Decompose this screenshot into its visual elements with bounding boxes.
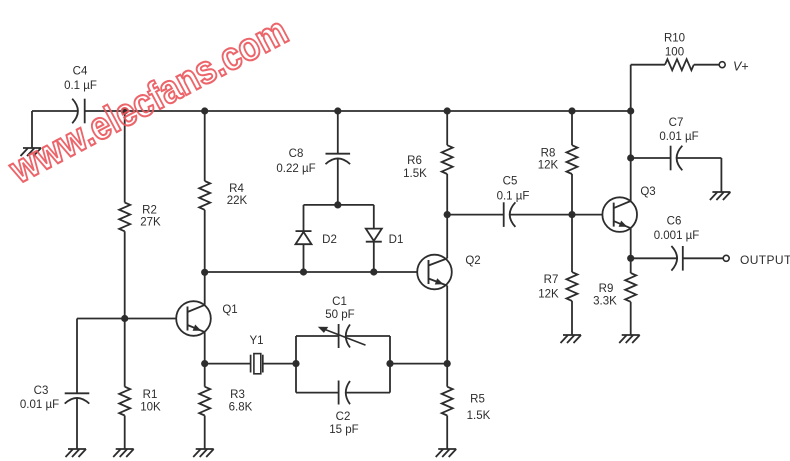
ground top-left bbox=[21, 148, 42, 156]
svg-text:0.01 µF: 0.01 µF bbox=[20, 399, 59, 411]
svg-text:D1: D1 bbox=[389, 234, 404, 246]
wire R5 top bbox=[446, 364, 448, 387]
capacitor C5 bbox=[497, 175, 530, 227]
terminal V+ bbox=[719, 59, 748, 73]
wire Q1 base row bbox=[77, 318, 176, 320]
ground R5 bbox=[436, 449, 457, 457]
svg-text:Q2: Q2 bbox=[465, 255, 480, 267]
svg-text:R7: R7 bbox=[544, 274, 559, 286]
wire top rail left segment bbox=[32, 110, 78, 112]
svg-text:0.1 µF: 0.1 µF bbox=[497, 190, 530, 202]
svg-text:0.001 µF: 0.001 µF bbox=[654, 230, 700, 242]
wire Y1 to loop bbox=[262, 363, 296, 365]
svg-text:12K: 12K bbox=[538, 160, 559, 172]
svg-text:Y1: Y1 bbox=[249, 335, 263, 347]
node C6 junction bbox=[627, 255, 634, 262]
svg-text:R9: R9 bbox=[599, 283, 614, 295]
wire C6 left bbox=[631, 257, 677, 259]
resistor R6 bbox=[403, 145, 453, 180]
node R5 top bbox=[444, 360, 451, 367]
resistor R8 bbox=[538, 145, 578, 174]
wire V+ riser bbox=[630, 65, 632, 111]
wire Q2 emitter bbox=[446, 286, 448, 364]
wire C8 bottom bbox=[337, 158, 339, 205]
wire Q3 base bbox=[572, 214, 602, 216]
ground R3 bbox=[193, 449, 214, 457]
resistor R1 bbox=[119, 387, 161, 416]
wire Q3 emitter bbox=[630, 228, 632, 258]
wire left drop bbox=[31, 111, 33, 148]
svg-text:R5: R5 bbox=[470, 393, 485, 405]
svg-text:Q3: Q3 bbox=[640, 186, 655, 198]
node Q1 collector junction bbox=[201, 269, 208, 276]
svg-text:C3: C3 bbox=[34, 385, 49, 397]
capacitor C6 bbox=[654, 215, 700, 270]
wire loop bottom-left bbox=[296, 392, 339, 394]
diode D1 bbox=[366, 205, 404, 272]
node D1 bottom bbox=[370, 268, 377, 275]
node C7 junction bbox=[627, 154, 634, 161]
wire loop top-right bbox=[346, 335, 390, 337]
svg-text:D2: D2 bbox=[322, 234, 337, 246]
ground C7 bbox=[710, 192, 731, 200]
wire loop right edge bbox=[389, 336, 391, 393]
wire R8 bottom bbox=[571, 174, 573, 215]
wire R2 top bbox=[124, 111, 126, 203]
svg-text:R4: R4 bbox=[229, 183, 244, 195]
svg-text:6.8K: 6.8K bbox=[229, 401, 253, 413]
capacitor C4 bbox=[64, 65, 97, 123]
resistor R2 bbox=[119, 203, 161, 232]
node rail-R8 bbox=[568, 107, 575, 114]
wire Q3 collector bbox=[630, 158, 632, 201]
wire R1 top bbox=[124, 319, 126, 387]
node C8 bottom bbox=[334, 201, 341, 208]
wire diode row bbox=[205, 271, 418, 273]
wire R6 top bbox=[446, 111, 448, 145]
svg-text:R3: R3 bbox=[230, 389, 245, 401]
wire C3 bottom bbox=[76, 398, 78, 449]
resistor R7 bbox=[538, 272, 577, 301]
wire R4 bottom bbox=[204, 210, 206, 272]
node D2 bottom bbox=[300, 268, 307, 275]
node C5 junction left bbox=[444, 211, 451, 218]
wire Q2 collector bbox=[446, 215, 448, 259]
svg-text:R8: R8 bbox=[541, 147, 556, 159]
diode D2 bbox=[296, 205, 337, 272]
node rail-R2 bbox=[121, 107, 128, 114]
svg-text:1.5K: 1.5K bbox=[467, 410, 491, 422]
svg-text:C7: C7 bbox=[669, 117, 684, 129]
svg-text:15 pF: 15 pF bbox=[329, 424, 358, 436]
node C5 junction right bbox=[568, 211, 575, 218]
wire R10 left bbox=[631, 64, 665, 66]
svg-text:27K: 27K bbox=[140, 217, 161, 229]
transistor Q2 bbox=[417, 255, 480, 290]
wire R2 bottom bbox=[124, 231, 126, 318]
svg-text:C8: C8 bbox=[289, 148, 304, 160]
capacitor C1 bbox=[318, 296, 366, 348]
resistor R4 bbox=[199, 181, 247, 210]
crystal Y1 bbox=[249, 335, 263, 374]
wire Q3 collector upper bbox=[630, 111, 632, 158]
node Q1 emitter junction bbox=[201, 360, 208, 367]
wire R10 right bbox=[694, 64, 719, 66]
node rail-R6 bbox=[444, 107, 451, 114]
svg-text:Q1: Q1 bbox=[222, 304, 237, 316]
svg-text:OUTPUT: OUTPUT bbox=[740, 253, 790, 267]
wire diode top row bbox=[304, 204, 374, 206]
node rail-R4 bbox=[201, 107, 208, 114]
wire C7 drop bbox=[720, 158, 722, 192]
capacitor C8 bbox=[276, 148, 350, 175]
wire R3 top bbox=[204, 364, 206, 387]
wire to Y1 bbox=[205, 363, 251, 365]
svg-text:0.22 µF: 0.22 µF bbox=[276, 163, 315, 175]
wire loop bottom-right bbox=[346, 392, 390, 394]
svg-text:3.3K: 3.3K bbox=[593, 296, 617, 308]
wire R9 top bbox=[630, 258, 632, 273]
wire R7 bottom bbox=[571, 301, 573, 335]
capacitor C2 bbox=[329, 381, 358, 436]
wire R9 bottom bbox=[630, 302, 632, 335]
svg-text:R2: R2 bbox=[142, 204, 157, 216]
ground R1 bbox=[113, 449, 134, 457]
svg-text:C4: C4 bbox=[73, 65, 88, 77]
svg-text:V+: V+ bbox=[733, 59, 749, 73]
svg-text:0.1 µF: 0.1 µF bbox=[64, 80, 97, 92]
svg-text:100: 100 bbox=[665, 47, 684, 59]
capacitor C3 bbox=[20, 385, 89, 411]
transistor Q1 bbox=[176, 301, 237, 336]
terminal OUTPUT bbox=[723, 253, 790, 267]
wire C5 right bbox=[510, 214, 572, 216]
svg-text:C1: C1 bbox=[332, 296, 347, 308]
wire Q1 emitter bbox=[204, 332, 206, 364]
wire R6 bottom bbox=[446, 174, 448, 215]
svg-text:50 pF: 50 pF bbox=[325, 309, 354, 321]
svg-text:10K: 10K bbox=[140, 401, 161, 413]
node loop right bbox=[386, 360, 393, 367]
node loop left bbox=[292, 360, 299, 367]
wire Q1 collector bbox=[204, 272, 206, 305]
svg-text:22K: 22K bbox=[227, 195, 248, 207]
wire loop top-left bbox=[296, 335, 339, 337]
svg-text:C2: C2 bbox=[336, 411, 351, 423]
svg-text:R1: R1 bbox=[143, 389, 158, 401]
wire R8 top bbox=[571, 111, 573, 145]
wire R7 top bbox=[571, 215, 573, 273]
wire R3 bottom bbox=[204, 416, 206, 450]
wire R1 bottom bbox=[124, 416, 126, 450]
svg-text:R10: R10 bbox=[664, 33, 685, 45]
ground R9 bbox=[619, 335, 640, 343]
node Q1 base junction bbox=[121, 315, 128, 322]
node rail-Q3col bbox=[627, 107, 634, 114]
wire loop to R5 bbox=[390, 363, 447, 365]
capacitor C7 bbox=[659, 117, 698, 170]
svg-text:C5: C5 bbox=[503, 175, 518, 187]
watermark www.elecfans.com bbox=[2, 8, 295, 192]
resistor R10 bbox=[664, 33, 694, 71]
resistor R5 bbox=[442, 387, 491, 422]
wire C7 left bbox=[631, 157, 671, 159]
wire R5 bottom bbox=[446, 416, 448, 450]
svg-text:0.01 µF: 0.01 µF bbox=[659, 131, 698, 143]
wire top rail bbox=[85, 110, 631, 112]
ground C3 bbox=[66, 449, 87, 457]
svg-text:12K: 12K bbox=[538, 289, 559, 301]
svg-text:C6: C6 bbox=[667, 215, 682, 227]
wire C8 top bbox=[337, 111, 339, 154]
wire C6 right bbox=[683, 257, 723, 259]
svg-text:R6: R6 bbox=[407, 155, 422, 167]
wire C5 left bbox=[447, 214, 504, 216]
svg-text:1.5K: 1.5K bbox=[403, 168, 427, 180]
wire C7 right bbox=[677, 157, 722, 159]
transistor Q3 bbox=[602, 186, 655, 232]
node rail-C8 bbox=[334, 107, 341, 114]
resistor R3 bbox=[199, 387, 252, 416]
wire loop left edge bbox=[295, 336, 297, 393]
resistor R9 bbox=[593, 273, 636, 308]
wire R4 top bbox=[204, 111, 206, 181]
ground R7 bbox=[561, 335, 582, 343]
wire C3 top bbox=[76, 319, 78, 394]
